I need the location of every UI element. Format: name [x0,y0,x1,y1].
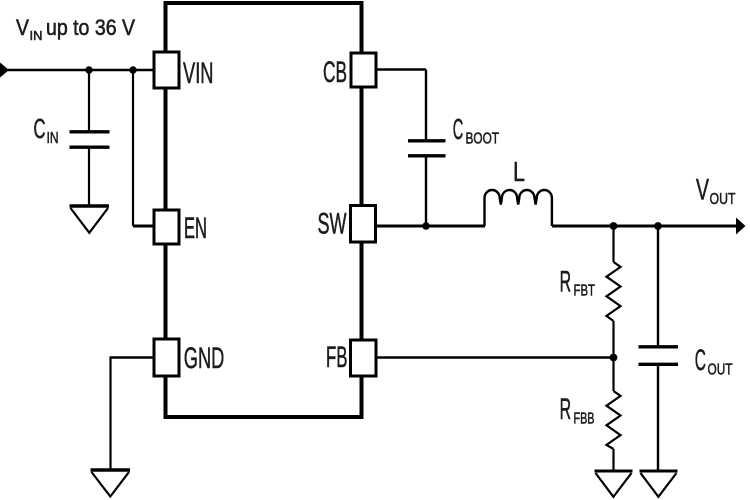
ground (below GND pin) [91,470,131,497]
svg-text:FBT: FBT [574,283,596,300]
pin VIN box [154,52,179,88]
label R_FBT [560,266,596,300]
svg-text:CB: CB [323,56,347,89]
svg-text:C: C [695,344,706,377]
wire GND pin to ground [110,358,155,470]
label C_IN [34,113,59,147]
ground (below COUT) [640,471,678,497]
wire EN branch vertical [132,70,134,226]
wire EN branch horizontal [133,225,154,228]
ground (below CIN) [70,206,110,233]
resistor R_FBT [607,262,621,321]
label C_OUT [695,344,733,379]
wire input line [6,69,154,72]
label C_BOOT [453,114,499,148]
svg-text:C: C [34,113,46,144]
wire RFBT to FB node [612,321,614,358]
wire CBOOT to SW node [425,157,427,226]
svg-text:FBB: FBB [574,411,595,428]
wire CB to CBOOT [376,70,426,140]
label R_FBB [560,393,595,428]
node B junction dot EN branch [129,66,136,73]
svg-text:GND: GND [184,342,225,375]
pin FB box [351,340,377,376]
label V_OUT [696,174,736,209]
node CBOOT-SW junction dot [422,222,430,230]
node COUT junction dot [654,222,662,230]
capacitor C_OUT [639,347,679,365]
node RFBT junction dot [610,222,618,230]
svg-text:up to 36 V: up to 36 V [46,15,135,40]
wire CIN branch lower [88,149,90,206]
resistor R_FBB [607,391,621,449]
inductor L [485,190,552,226]
node VOUT arrow [736,218,746,235]
svg-text:BOOT: BOOT [466,131,500,148]
node input arrow [0,63,9,78]
node FB junction dot [610,354,618,362]
wire CIN branch upper [88,70,90,131]
wire FB node to RFBB [612,358,614,392]
svg-text:IN: IN [47,130,59,147]
capacitor C_IN [70,132,110,147]
svg-text:EN: EN [184,212,207,245]
label VIN up to 36 V [16,15,135,43]
svg-text:R: R [560,393,572,426]
wire SW to inductor [376,225,486,228]
pin EN box [154,210,179,244]
svg-text:OUT: OUT [708,362,733,379]
pin GND box [154,339,179,376]
wire inductor to output arrow [552,225,737,228]
svg-text:L: L [513,156,525,187]
wire RFBB to ground [612,449,614,470]
svg-text:FB: FB [326,341,348,374]
svg-text:C: C [453,114,464,146]
svg-text:VIN: VIN [183,57,214,90]
pin CB box [351,53,376,87]
op-amp U1 IC body [166,3,362,417]
wire COUT to ground [657,366,659,470]
node A junction dot CIN [85,66,92,73]
svg-text:SW: SW [318,208,347,241]
svg-text:V: V [696,174,709,207]
svg-text:IN: IN [30,28,43,43]
wire FB pin to FB node [376,356,614,358]
svg-text:OUT: OUT [710,191,736,208]
svg-text:V: V [16,15,29,40]
wire SW node to RFBT [612,226,614,262]
capacitor C_BOOT [408,141,446,156]
pin SW box [351,206,376,243]
ground (below RFBB) [595,471,633,497]
svg-text:R: R [560,266,572,299]
wire VOUT node to COUT [657,226,659,346]
